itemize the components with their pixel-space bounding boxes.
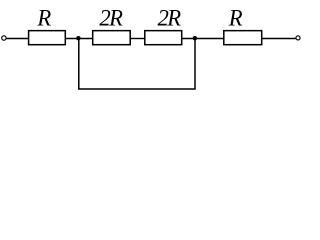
right terminal bbox=[296, 36, 300, 40]
wire bbox=[6, 38, 28, 40]
svg-text:2R: 2R bbox=[99, 5, 123, 30]
wire bbox=[130, 38, 145, 40]
node B bbox=[193, 36, 198, 41]
svg-text:R: R bbox=[228, 5, 243, 30]
resistor R2 bbox=[93, 5, 131, 44]
resistor R3 bbox=[145, 5, 182, 44]
wire bbox=[182, 38, 224, 40]
resistor R1 bbox=[29, 5, 66, 44]
svg-text:2R: 2R bbox=[158, 5, 182, 30]
resistor R4 bbox=[224, 5, 262, 44]
wire bbox=[65, 38, 92, 40]
node A bbox=[76, 36, 81, 41]
left terminal bbox=[2, 36, 6, 40]
svg-text:R: R bbox=[36, 5, 51, 30]
wire bbox=[262, 38, 296, 40]
wire shorting link from node A to node B bbox=[79, 39, 195, 90]
